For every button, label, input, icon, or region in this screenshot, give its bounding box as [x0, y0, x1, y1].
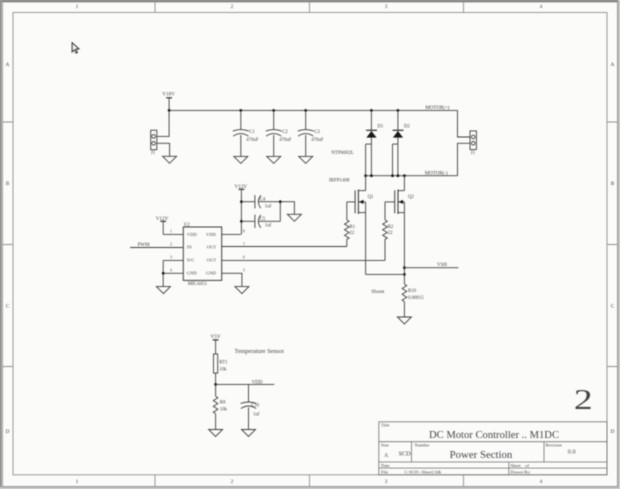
- capacitor C4: [241, 195, 280, 210]
- svg-text:R2: R2: [388, 225, 394, 230]
- wire pin5 to ground: [222, 273, 242, 286]
- svg-text:4: 4: [540, 4, 543, 10]
- ground IC left: [156, 287, 170, 294]
- svg-text:R8: R8: [220, 401, 226, 406]
- wire pin7 to R1: [222, 246, 347, 248]
- svg-text:R10: R10: [408, 289, 417, 294]
- wire J1 pin2 to ground: [157, 143, 170, 156]
- svg-text:IN: IN: [187, 244, 193, 249]
- svg-text:Number: Number: [415, 443, 431, 448]
- border ticks left: [3, 122, 14, 367]
- svg-text:C3: C3: [314, 130, 320, 135]
- transistor Q2: [385, 176, 414, 214]
- svg-text:GND: GND: [206, 271, 217, 276]
- node pin4 junction: [162, 272, 165, 275]
- wire +18V bus: [169, 109, 457, 111]
- mouse cursor: [72, 43, 79, 54]
- svg-text:0.00015: 0.00015: [408, 296, 424, 301]
- svg-text:NTP6002L: NTP6002L: [331, 151, 354, 156]
- diode D2: [393, 110, 411, 175]
- wire pin6 to R2: [222, 259, 385, 261]
- svg-text:1uf: 1uf: [265, 224, 272, 229]
- svg-text:R1: R1: [350, 225, 356, 230]
- svg-text:0.0: 0.0: [568, 448, 576, 455]
- resistor R8: [213, 384, 227, 429]
- svg-text:VDD: VDD: [187, 232, 198, 237]
- svg-text:OUT: OUT: [207, 258, 217, 263]
- wire pin2 PWM: [130, 247, 183, 249]
- connector J1: [151, 130, 157, 156]
- capacitor C5: [241, 215, 280, 229]
- wire VSH: [404, 267, 458, 269]
- svg-text:10k: 10k: [219, 368, 227, 373]
- resistor R1: [345, 202, 356, 247]
- wire D1 anode tie stub: [366, 143, 372, 145]
- transistor Q1: [347, 144, 374, 214]
- svg-text:2: 2: [231, 4, 234, 10]
- op-amp U2 MIC4451 body: [183, 223, 221, 287]
- svg-text:2: 2: [574, 385, 593, 415]
- svg-text:Power Section: Power Section: [450, 449, 513, 461]
- wire D2 anode tie stub: [393, 143, 398, 145]
- resistor R2: [383, 202, 394, 261]
- border ticks bottom: [155, 475, 464, 487]
- connector J3: [470, 131, 476, 156]
- wire VSH to shunt node: [403, 268, 405, 275]
- wire bus to J3 pin1: [458, 110, 471, 137]
- svg-text:4: 4: [540, 479, 543, 485]
- ground R8: [209, 430, 223, 437]
- wire D2 left drop: [392, 144, 394, 176]
- svg-text:VSH: VSH: [437, 263, 447, 268]
- wire pin3-pin4 tie to ground: [162, 260, 164, 286]
- svg-text:6: 6: [243, 255, 245, 260]
- wire VDD: [216, 383, 275, 385]
- svg-text:SCD: SCD: [399, 450, 412, 457]
- svg-text:IRFP1408: IRFP1408: [329, 178, 350, 183]
- wire Q2 source down to VSH: [403, 213, 405, 268]
- svg-text:1uf: 1uf: [265, 205, 272, 210]
- power symbol V12V (IC): [156, 216, 169, 235]
- node C4 junction: [240, 200, 243, 203]
- svg-text:Sheet of: Sheet of: [511, 463, 530, 468]
- svg-text:Drawn By:: Drawn By:: [511, 470, 531, 475]
- wire caps to ground: [280, 202, 294, 215]
- svg-text:MIC4451: MIC4451: [188, 282, 208, 287]
- capacitor C1: [233, 110, 259, 156]
- screen bottom edge: [0, 487, 620, 489]
- screen left edge: [0, 0, 1, 489]
- wire pin4: [163, 272, 183, 274]
- ground IC right: [235, 287, 249, 294]
- wire drain bus MOTOR(-): [366, 175, 458, 177]
- ground caps: [287, 214, 301, 221]
- svg-text:VDD: VDD: [252, 381, 263, 386]
- svg-text:Q1: Q1: [368, 195, 374, 200]
- svg-text:1uf: 1uf: [253, 413, 260, 418]
- svg-text:470uF: 470uF: [311, 138, 324, 143]
- svg-text:8: 8: [243, 229, 245, 234]
- capacitor C3: [298, 110, 324, 156]
- svg-text:7: 7: [243, 242, 245, 247]
- wire pin8: [222, 233, 241, 235]
- svg-text:2: 2: [231, 479, 234, 485]
- svg-text:22: 22: [388, 231, 393, 236]
- svg-text:OUT: OUT: [207, 244, 217, 249]
- svg-text:C1: C1: [249, 130, 255, 135]
- svg-text:File: File: [381, 469, 388, 474]
- ground R10: [397, 317, 411, 324]
- wire pin1: [163, 233, 183, 235]
- ground J1: [163, 156, 177, 163]
- node C4 right junction: [279, 200, 282, 203]
- ground C3: [299, 156, 313, 163]
- svg-text:3: 3: [170, 255, 172, 260]
- wire bus to J1 pin1: [157, 110, 169, 136]
- svg-text:N/C: N/C: [187, 258, 195, 263]
- svg-text:Date: Date: [381, 463, 390, 468]
- svg-text:J3: J3: [471, 151, 476, 156]
- capacitor C16: [241, 384, 260, 429]
- svg-text:470uF: 470uF: [279, 138, 292, 143]
- svg-text:4: 4: [170, 268, 172, 273]
- capacitor C2: [266, 110, 292, 156]
- wire V18V stem: [168, 98, 170, 111]
- svg-text:Q2: Q2: [408, 195, 414, 200]
- svg-text:U2: U2: [184, 223, 190, 228]
- svg-text:D1: D1: [377, 125, 383, 130]
- svg-text:GND: GND: [187, 271, 198, 276]
- screen right edge: [618, 0, 620, 489]
- svg-text:C16: C16: [251, 403, 260, 408]
- svg-text:C:\SCD\..\Sheet2.Sdb: C:\SCD\..\Sheet2.Sdb: [405, 470, 442, 475]
- svg-text:C: C: [611, 304, 615, 310]
- wire Q1 source horizontal: [366, 273, 405, 275]
- svg-text:D: D: [611, 429, 615, 435]
- svg-text:J1: J1: [151, 151, 156, 156]
- svg-text:Shunt: Shunt: [371, 289, 385, 295]
- node drain bus junctions: [364, 174, 406, 177]
- svg-text:B: B: [6, 181, 10, 187]
- svg-text:Temperature Sensor: Temperature Sensor: [235, 348, 285, 355]
- svg-text:3: 3: [385, 479, 388, 485]
- node C5 junction: [240, 220, 243, 223]
- border ticks right: [607, 122, 618, 367]
- diode D1: [366, 110, 384, 175]
- power symbol V5V: [211, 334, 221, 354]
- svg-text:C2: C2: [282, 130, 288, 135]
- svg-text:22: 22: [350, 231, 355, 236]
- svg-text:D: D: [6, 429, 10, 435]
- svg-text:DC Motor Controller .. M1DC: DC Motor Controller .. M1DC: [429, 430, 559, 441]
- node VDD junction: [214, 383, 217, 386]
- svg-text:VDD: VDD: [206, 232, 217, 237]
- svg-text:B: B: [611, 181, 615, 187]
- node bus junctions: [168, 109, 400, 112]
- ground C1: [234, 156, 248, 163]
- power symbol V12V (caps): [235, 184, 248, 235]
- wire drain bus to J3 pin2: [458, 143, 471, 175]
- wire pin3: [163, 259, 183, 261]
- svg-text:C5: C5: [260, 217, 266, 222]
- svg-text:1: 1: [76, 4, 79, 10]
- title block frame: [379, 422, 607, 475]
- svg-text:1: 1: [76, 479, 79, 485]
- svg-text:1: 1: [170, 229, 172, 234]
- svg-text:A: A: [611, 62, 615, 68]
- svg-text:C4: C4: [260, 197, 266, 202]
- screen top edge: [0, 0, 620, 1]
- svg-text:V18V: V18V: [162, 91, 175, 97]
- border ticks top: [155, 2, 464, 13]
- svg-text:Title: Title: [381, 423, 390, 428]
- svg-text:C: C: [6, 304, 10, 310]
- power symbol V18V: [162, 91, 175, 110]
- svg-text:PWM: PWM: [138, 243, 151, 248]
- wire Q1 source down: [365, 213, 367, 275]
- svg-text:470uF: 470uF: [246, 138, 259, 143]
- svg-text:10k: 10k: [220, 407, 228, 412]
- svg-text:RT1: RT1: [219, 360, 228, 365]
- svg-text:D2: D2: [404, 125, 410, 130]
- svg-text:MOTOR(-): MOTOR(-): [425, 172, 448, 177]
- node VSH junction: [403, 266, 406, 269]
- ground C16: [242, 430, 256, 437]
- resistor RT1 thermistor: [214, 354, 229, 384]
- resistor R10 shunt: [402, 274, 424, 317]
- ground C2: [267, 156, 281, 163]
- svg-text:5: 5: [243, 268, 245, 273]
- svg-text:Revision: Revision: [546, 443, 563, 448]
- svg-text:Size: Size: [381, 443, 389, 448]
- svg-text:2: 2: [170, 242, 172, 247]
- svg-text:A: A: [6, 62, 10, 68]
- wire C4-C5 right tie: [279, 202, 281, 222]
- svg-text:3: 3: [385, 4, 388, 10]
- node shunt junction: [403, 273, 406, 276]
- svg-text:MOTOR(+): MOTOR(+): [425, 106, 449, 111]
